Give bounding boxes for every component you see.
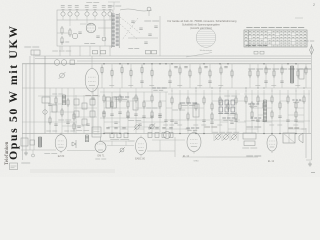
svg-text:2: 2 <box>313 3 315 7</box>
svg-text:EABC 80: EABC 80 <box>135 158 146 161</box>
svg-text:Opus 50 W mit UKW: Opus 50 W mit UKW <box>6 24 20 160</box>
svg-text:Telefunken: Telefunken <box>3 141 10 165</box>
svg-text:Skalenzeiger: Skalenzeiger <box>200 49 213 52</box>
svg-text:EL 12: EL 12 <box>183 155 190 158</box>
svg-text:EL 12: EL 12 <box>268 160 275 163</box>
svg-text:6780: 6780 <box>194 161 200 163</box>
svg-text:EM 71: EM 71 <box>98 155 106 158</box>
svg-text:EZ 80: EZ 80 <box>58 155 65 158</box>
